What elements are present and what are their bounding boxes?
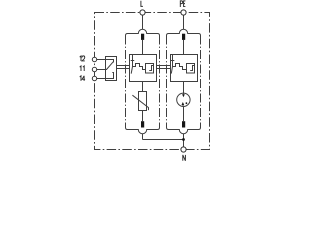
contact 12 lead [97,60,114,63]
mechanical linkage pulse [133,64,146,70]
terminal PE [180,1,186,15]
terminal 12 [80,56,97,62]
terminal L [140,1,145,15]
thermal disconnector contact [172,55,174,67]
terminal 14 [80,76,97,81]
plug terminal top module 2 (blade) [182,34,185,55]
mechanical linkage double line K1 to module 1 [117,66,130,69]
disconnector box U1 (left module) [130,55,157,82]
wire N bus horizontal [143,139,184,141]
indicator square [146,64,154,74]
terminal N [181,147,186,161]
plug terminal bottom module 1 (blade) [141,111,144,128]
wire PE drop [183,15,185,29]
disconnector box U2 (right module) [171,55,198,82]
contact 14 lead [97,73,114,79]
plug terminal bottom module 2 (blade) [182,107,185,128]
module 1 boundary (left plug-in module) [126,29,160,133]
module 2 boundary (right plug-in module) [167,29,201,133]
varistor RV1 [132,82,148,111]
spark gap F1 (triggered) [177,82,190,107]
wire L drop [142,15,144,29]
contact 11 lead and arm [97,62,114,70]
indicator square [187,64,195,74]
wire module 1 bottom to N bus [142,134,144,140]
enclosure border (dash-dot) [95,13,210,150]
remote signalling changeover contact K1 [97,57,117,81]
wire module 2 bottom to N [183,134,185,147]
mechanical linkage double line module 1 to module 2 [157,66,171,69]
thermal disconnector contact [132,55,134,67]
plug terminal top module 1 (blade) [141,34,144,55]
junction node [182,138,185,141]
mechanical linkage pulse [173,64,187,70]
terminal 11 [80,66,97,72]
